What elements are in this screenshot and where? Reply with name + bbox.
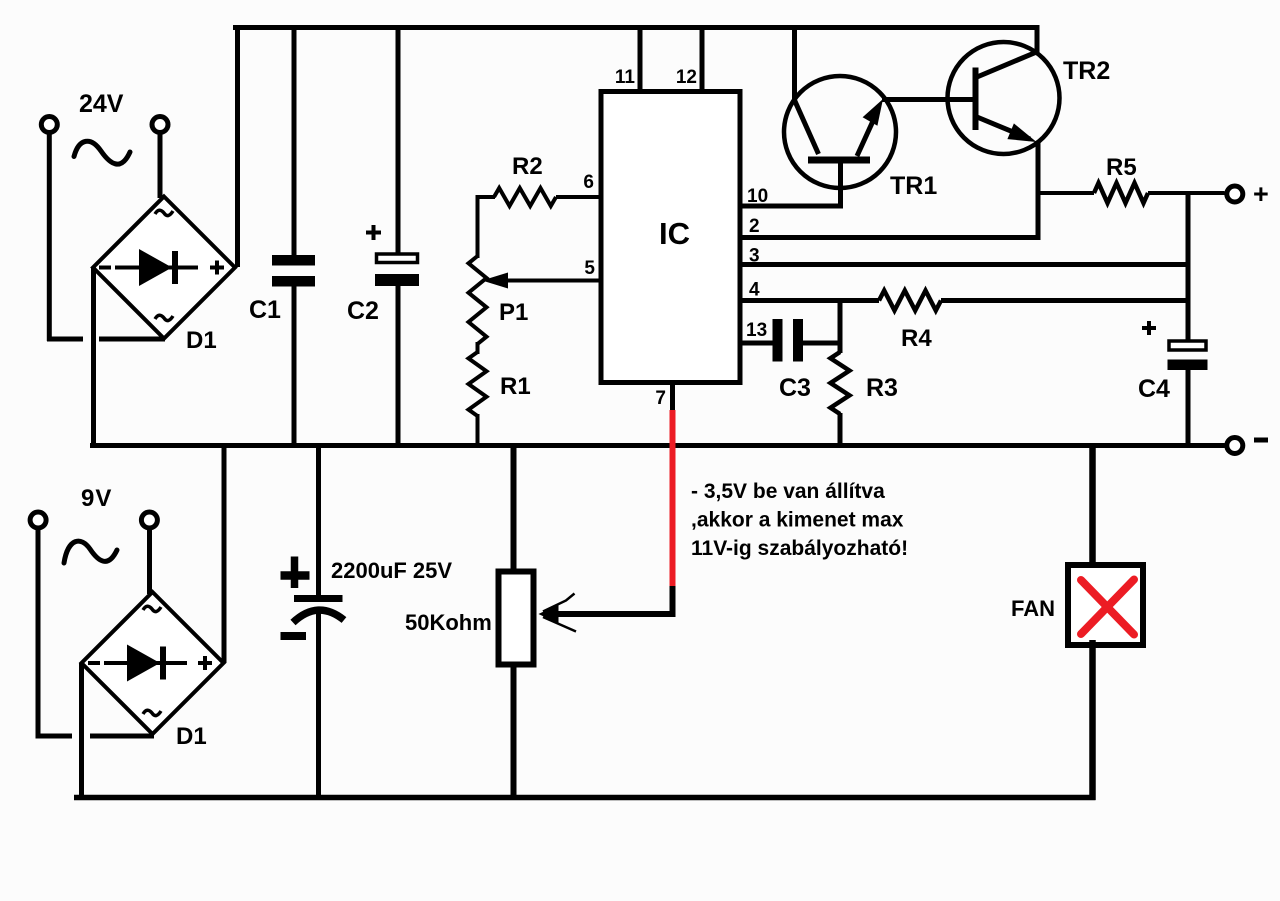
potentiometer P1 zigzag [469, 256, 487, 344]
TR1 emitter line [857, 110, 878, 156]
wire R1 bottom lead [476, 414, 480, 448]
wire top bus [233, 25, 1040, 30]
wire 24V ac to bridge bottom seg2 [99, 337, 165, 342]
capacitor C2 plate top [377, 254, 418, 263]
wiper wire horizontal [548, 611, 673, 617]
sine symbol 24V [74, 141, 130, 164]
svg-text:R3: R3 [866, 374, 898, 402]
svg-text:TR1: TR1 [890, 172, 937, 200]
terminal 9V right [141, 512, 157, 528]
wire R5 right lead [1148, 191, 1225, 195]
capacitor C2 plate bottom [375, 274, 419, 286]
wire 24V right terminal to bridge top [158, 134, 163, 198]
wire bottom bus upper [90, 443, 1225, 448]
bridge2 diode triangle [127, 645, 160, 682]
wire pin7 lower black [670, 586, 676, 617]
capacitor C3 plate right [793, 319, 803, 362]
bridge rectifier D1 lower diamond [82, 592, 224, 734]
capacitor C3 plate left [773, 319, 783, 362]
bridge1 tilde bottom [155, 315, 173, 320]
sine symbol 9V [64, 541, 117, 563]
wire pot top [511, 448, 517, 572]
transistor TR2 circle [948, 42, 1060, 154]
wire R3 top [838, 298, 843, 353]
bridge1 plus mark [210, 266, 224, 270]
wire TR2 collector to bus [1035, 25, 1040, 54]
wire R1 top lead [476, 342, 480, 354]
wire C4 bottom [1186, 370, 1191, 448]
svg-text:D1: D1 [186, 327, 217, 354]
bridge2 diode bar [160, 647, 166, 680]
svg-text:IC: IC [659, 216, 690, 251]
TR1 collector line [794, 99, 819, 154]
svg-text:11V-ig szabályozható!: 11V-ig szabályozható! [691, 537, 908, 560]
svg-text:C2: C2 [347, 297, 379, 325]
capacitor C4 plate bottom [1168, 360, 1208, 371]
wire pot bottom [511, 664, 517, 800]
resistor R2 [494, 188, 556, 206]
svg-text:D1: D1 [176, 723, 207, 750]
bridge1 diode triangle [139, 249, 172, 286]
wire 24V ac to bridge bottom seg1 [47, 337, 83, 342]
capacitor C1 plate top [272, 255, 315, 266]
resistor R4 [879, 291, 941, 311]
wire TR1 collector to bus [792, 25, 797, 102]
wire pin7 stub [670, 382, 675, 412]
cap2200 curved plate [293, 610, 344, 622]
wire pin12 [700, 25, 705, 91]
wire C2 top [396, 25, 401, 253]
TR2 emitter line [977, 117, 1030, 139]
terminal minus output [1227, 438, 1243, 454]
terminal 24V left [41, 117, 57, 133]
wire C2 bottom [396, 286, 401, 448]
wiper thin line down [543, 617, 576, 632]
fan X stroke 2 [1081, 580, 1134, 635]
svg-text:2200uF 25V: 2200uF 25V [331, 558, 452, 583]
wiper arrowhead [539, 605, 559, 624]
svg-text:4: 4 [749, 280, 760, 301]
label minus output [1254, 438, 1268, 443]
wire bridge1 minus down [91, 268, 96, 449]
wire pin13 [740, 341, 774, 346]
bridge2 plus mark [198, 661, 212, 665]
cap2200 flat plate [294, 595, 343, 602]
wire 24V left terminal down [47, 134, 52, 341]
bridge2 diode line [104, 661, 187, 665]
cap2200 minus mark [281, 632, 307, 640]
wire 9V ac to bridge bottom seg2 [90, 734, 154, 739]
svg-text:12: 12 [676, 67, 697, 88]
wire pin11 [638, 25, 643, 91]
TR1 base stem [838, 160, 843, 209]
svg-text:- 3,5V be van állítva: - 3,5V be van állítva [691, 480, 885, 503]
wire R5 left lead [1038, 191, 1094, 195]
wire TR2 emitter down [1036, 141, 1041, 240]
svg-text:2: 2 [749, 216, 760, 237]
wire bridge2 plus up [222, 448, 227, 663]
TR1 emitter arrow [863, 99, 883, 126]
wire bridge1 plus to top bus [235, 25, 240, 267]
wire fan top [1089, 448, 1096, 567]
resistor R1 [469, 352, 487, 416]
fan box [1068, 565, 1143, 645]
wire pin2 [740, 235, 1041, 240]
svg-text:50Kohm: 50Kohm [405, 610, 492, 635]
svg-text:C1: C1 [249, 296, 281, 324]
svg-text:P1: P1 [499, 299, 528, 326]
wiper thin line up [543, 594, 575, 612]
resistor R3 [831, 352, 850, 414]
capacitor C4 plus mark [1142, 326, 1156, 330]
bridge1 tilde top [155, 210, 173, 215]
wire cap2200 bottom [316, 612, 321, 800]
bridge1 diode bar [172, 251, 178, 284]
svg-text:,akkor a kimenet max: ,akkor a kimenet max [691, 509, 904, 532]
wire pin3 [740, 262, 1191, 267]
wire C1 top [292, 25, 297, 256]
terminal plus output [1227, 186, 1243, 202]
wire R3 bottom [838, 413, 843, 448]
wire bottom bus lower [74, 795, 1096, 801]
svg-text:24V: 24V [79, 90, 124, 118]
svg-text:R1: R1 [500, 373, 531, 400]
svg-text:5: 5 [584, 258, 595, 279]
cap2200 plus mark [281, 571, 310, 580]
wire pin4 left [740, 298, 879, 303]
TR2 collector line [977, 51, 1039, 77]
P1 wiper arrow [482, 273, 508, 289]
svg-text:C3: C3 [779, 374, 811, 402]
bridge2 tilde bottom [143, 710, 161, 715]
bridge2 tilde top [143, 606, 161, 611]
wire cap2200 top [316, 448, 321, 599]
bridge2 minus mark [88, 661, 100, 665]
svg-text:6: 6 [583, 172, 594, 193]
wire pin4 right [941, 298, 1191, 303]
wire pin6 lead [556, 195, 601, 199]
terminal 24V right [152, 117, 168, 133]
wire pin5 [500, 279, 601, 283]
bridge1 minus mark [99, 266, 111, 270]
potentiometer 50Kohm box [499, 572, 534, 665]
svg-text:FAN: FAN [1011, 596, 1055, 621]
TR2 emitter arrow [1007, 123, 1036, 142]
bridge rectifier D1 upper diamond [93, 197, 235, 339]
wire R2 left lead [476, 195, 480, 258]
wire pin10 [740, 204, 843, 209]
IC U1 box [601, 92, 740, 383]
svg-text:R4: R4 [901, 325, 932, 352]
capacitor C1 plate bottom [272, 276, 315, 287]
fan X stroke 1 [1081, 580, 1134, 635]
TR1 base bar [808, 157, 870, 164]
svg-text:C4: C4 [1138, 375, 1170, 403]
capacitor C4 plate top [1169, 341, 1206, 350]
resistor R5 [1094, 183, 1148, 203]
wire fan bottom [1089, 640, 1096, 800]
wire C3 to R3 [803, 341, 843, 346]
svg-text:R2: R2 [512, 153, 543, 180]
wire pin7 red [670, 410, 676, 588]
svg-text:TR2: TR2 [1063, 57, 1110, 85]
bridge1 diode line [115, 266, 198, 270]
svg-text:7: 7 [655, 388, 666, 409]
TR2 base bar [973, 68, 979, 131]
terminal 9V left [30, 512, 46, 528]
svg-text:R5: R5 [1106, 154, 1137, 181]
svg-text:11: 11 [615, 67, 636, 88]
wire 9V ac to bridge bottom seg1 [36, 734, 73, 739]
wire C4 top [1186, 193, 1191, 341]
wire 9V left terminal down [36, 529, 41, 738]
wire C1 bottom [292, 286, 297, 448]
svg-text:13: 13 [746, 320, 767, 341]
wire TR1 emitter to TR2 base [882, 97, 974, 102]
transistor TR1 circle [784, 76, 896, 188]
wire bridge2 minus down [79, 663, 84, 800]
svg-text:9V: 9V [81, 485, 112, 512]
wire 9V right terminal to bridge top [147, 529, 152, 594]
svg-text:+: + [1253, 179, 1269, 209]
capacitor C2 plus [366, 231, 381, 235]
